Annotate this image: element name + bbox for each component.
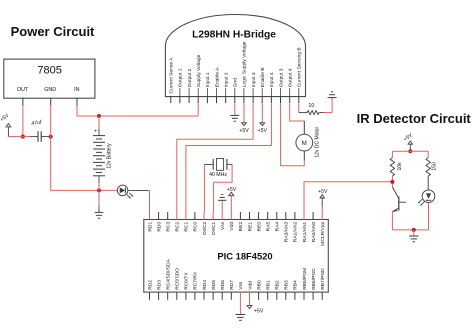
- svg-text:Enable B: Enable B: [260, 67, 266, 87]
- svg-text:L298HN H-Bridge: L298HN H-Bridge: [192, 30, 276, 41]
- svg-text:Current Sensing B: Current Sensing B: [297, 47, 303, 87]
- svg-text:RC7/RX: RC7/RX: [193, 271, 199, 290]
- svg-text:Input 3: Input 3: [251, 72, 257, 87]
- svg-text:12v DC Motor: 12v DC Motor: [315, 126, 321, 157]
- svg-text:RC5/SDO: RC5/SDO: [175, 268, 181, 290]
- svg-text:PIC 18F4520: PIC 18F4520: [217, 251, 272, 262]
- svg-text:Input 1: Input 1: [205, 72, 211, 87]
- svg-text:RB5/PGM: RB5/PGM: [302, 268, 308, 290]
- svg-text:Vdd: Vdd: [229, 222, 235, 231]
- svg-text:Output 1: Output 1: [178, 68, 184, 87]
- svg-text:Supply Voltage: Supply Voltage: [196, 54, 202, 87]
- svg-text:RD1: RD1: [147, 222, 153, 232]
- svg-text:Enable A.: Enable A.: [214, 66, 220, 87]
- svg-text:RB6/PGC: RB6/PGC: [311, 268, 317, 290]
- svg-text:+5V: +5V: [239, 128, 249, 134]
- svg-text:10: 10: [308, 103, 314, 109]
- svg-text:OSC1: OSC1: [211, 222, 217, 236]
- svg-text:Input 4: Input 4: [269, 72, 275, 87]
- svg-text:RA5: RA5: [266, 222, 272, 232]
- svg-text:Output 2: Output 2: [187, 68, 193, 87]
- svg-text:7805: 7805: [37, 65, 61, 77]
- svg-text:IR Detector Circuit: IR Detector Circuit: [357, 111, 472, 126]
- svg-text:MCLR/Vpp: MCLR/Vpp: [320, 222, 326, 246]
- svg-text:RB2: RB2: [275, 280, 281, 290]
- svg-text:RB0: RB0: [256, 280, 262, 290]
- svg-text:Vss: Vss: [220, 221, 226, 230]
- svg-text:IN: IN: [74, 87, 79, 93]
- svg-text:Vss: Vss: [238, 281, 244, 290]
- svg-text:RB4: RB4: [293, 280, 299, 290]
- svg-text:GND: GND: [44, 87, 56, 93]
- svg-text:RD7: RD7: [229, 280, 235, 290]
- svg-text:RA3/AN3: RA3/AN3: [284, 222, 290, 243]
- svg-text:RA4: RA4: [275, 222, 281, 232]
- svg-text:RD5: RD5: [211, 280, 217, 290]
- svg-text:Output 3: Output 3: [278, 68, 284, 87]
- svg-text:Vdd: Vdd: [247, 281, 253, 290]
- svg-text:RC6/TX: RC6/TX: [184, 272, 190, 290]
- svg-text:RA1/AN1: RA1/AN1: [302, 222, 308, 243]
- svg-text:+5V: +5V: [254, 308, 264, 314]
- svg-text:RC3: RC3: [166, 222, 172, 232]
- svg-text:RD3: RD3: [156, 280, 162, 290]
- svg-text:RC0: RC0: [193, 222, 199, 232]
- svg-text:RA0/AN0: RA0/AN0: [311, 222, 317, 243]
- svg-text:10k: 10k: [397, 162, 403, 171]
- svg-text:OUT: OUT: [17, 87, 29, 93]
- svg-text:M: M: [302, 141, 307, 147]
- svg-text:RB1: RB1: [266, 280, 272, 290]
- svg-text:Power Circuit: Power Circuit: [11, 24, 95, 39]
- svg-text:RD4: RD4: [202, 280, 208, 290]
- svg-text:OSC2: OSC2: [202, 222, 208, 236]
- svg-text:RB7/PGD: RB7/PGD: [320, 268, 326, 290]
- svg-text:RE0: RE0: [256, 222, 262, 232]
- svg-text:RC1: RC1: [184, 222, 190, 232]
- svg-text:RD6: RD6: [220, 280, 226, 290]
- svg-text:+: +: [94, 129, 97, 135]
- svg-text:RC4/SDI/SDA: RC4/SDI/SDA: [166, 258, 172, 289]
- svg-text:+5V: +5V: [318, 189, 328, 195]
- svg-text:Current Sense A: Current Sense A: [169, 57, 175, 94]
- svg-text:Logic Supply Voltage: Logic Supply Voltage: [242, 41, 248, 87]
- svg-text:12v Battery: 12v Battery: [107, 143, 113, 169]
- svg-text:RC2: RC2: [175, 222, 181, 232]
- svg-text:40 MHz: 40 MHz: [209, 172, 227, 178]
- svg-text:RE2: RE2: [238, 222, 244, 232]
- svg-text:Input 2: Input 2: [224, 72, 230, 87]
- svg-text:RE1: RE1: [247, 222, 253, 232]
- svg-text:RB3: RB3: [284, 280, 290, 290]
- svg-text:150: 150: [432, 162, 438, 171]
- svg-text:RD0: RD0: [156, 222, 162, 232]
- svg-text:+5V: +5V: [258, 128, 268, 134]
- svg-text:RA2/AN2: RA2/AN2: [293, 222, 299, 243]
- svg-text:Output 4: Output 4: [288, 68, 294, 87]
- svg-text:Gnd: Gnd: [233, 78, 239, 88]
- svg-text:+5V: +5V: [227, 187, 237, 193]
- svg-text:RD2: RD2: [147, 280, 153, 290]
